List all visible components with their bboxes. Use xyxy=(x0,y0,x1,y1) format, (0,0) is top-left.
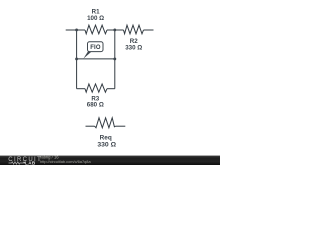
resistor R1 xyxy=(85,25,107,34)
wire middle short xyxy=(77,58,115,60)
FIO flag box xyxy=(88,42,104,52)
wire bottom left lead xyxy=(77,88,85,90)
wire Req left lead xyxy=(86,125,95,127)
wire R1 to node B xyxy=(107,29,124,31)
wire right vertical xyxy=(114,30,116,89)
wire bottom right lead xyxy=(107,88,115,90)
junction node B top right xyxy=(113,28,116,31)
svg-text:680 Ω: 680 Ω xyxy=(87,102,104,109)
svg-text:330 Ω: 330 Ω xyxy=(97,141,116,148)
wire left stub to node A xyxy=(66,29,85,31)
FIO flag tail xyxy=(83,51,91,58)
junction node A top left xyxy=(75,28,78,31)
svg-text:100 Ω: 100 Ω xyxy=(87,15,104,22)
svg-text:LAB: LAB xyxy=(25,161,36,165)
resistor Req xyxy=(95,118,116,128)
svg-text:http://circuitlab.com/c/6a7q8a: http://circuitlab.com/c/6a7q8a xyxy=(40,159,91,164)
junction node D mid right xyxy=(113,57,116,60)
CircuitLab logo resistor glyph xyxy=(9,162,24,164)
resistor R3 xyxy=(85,84,107,92)
wire R2 right lead xyxy=(144,29,154,31)
junction node C mid left xyxy=(75,57,78,60)
svg-text:FIO: FIO xyxy=(90,45,101,51)
wire left vertical xyxy=(76,30,78,89)
resistor R2 xyxy=(124,25,144,34)
CircuitLab logo wire-dot xyxy=(23,162,25,164)
svg-text:330 Ω: 330 Ω xyxy=(125,45,142,52)
wire Req right lead xyxy=(116,125,126,127)
